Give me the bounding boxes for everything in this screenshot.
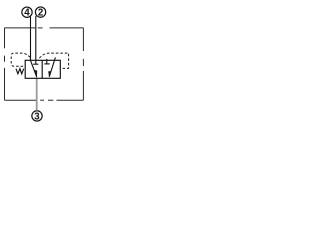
svg-text:4: 4 (24, 8, 30, 19)
envelope bottom edge (5, 99, 84, 101)
pilot line dashed, right path to right end of spool (39, 53, 68, 68)
right cell blocked port (T) (44, 59, 50, 64)
envelope right edge (82, 28, 84, 100)
left cell flow arrow 4 to 3 (31, 60, 38, 77)
valve divider (41, 60, 43, 78)
pilot line dashed, left C-path from port 4 line (11, 53, 30, 66)
port 3 circle label (32, 111, 42, 123)
svg-text:2: 2 (38, 8, 43, 19)
right cell flow arrow 2 to 3 (48, 57, 55, 77)
wire port 4 line (30, 17, 32, 61)
wire port 2 line (35, 16, 37, 64)
left cell blocked port 2 (T) (33, 63, 38, 65)
envelope left edge (4, 28, 6, 100)
valve body box (25, 60, 60, 78)
spring (W) on left of valve (16, 69, 24, 74)
svg-text:3: 3 (34, 112, 40, 123)
port 4 circle label (22, 7, 32, 19)
wire port 3 line (gray) (36, 78, 38, 110)
port 2 circle label (35, 7, 45, 19)
envelope (chain-line rectangle, top edge) (5, 27, 84, 29)
